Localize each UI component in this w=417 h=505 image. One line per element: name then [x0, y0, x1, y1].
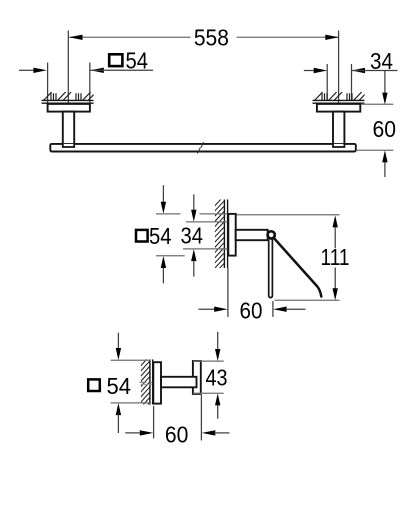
svg-text:60: 60 — [240, 298, 263, 324]
svg-text:54: 54 — [107, 373, 132, 399]
svg-text:43: 43 — [206, 364, 228, 390]
svg-text:60: 60 — [373, 116, 397, 142]
svg-text:60: 60 — [165, 422, 189, 448]
svg-text:111: 111 — [321, 244, 350, 270]
svg-text:54: 54 — [126, 48, 149, 74]
svg-text:34: 34 — [370, 48, 393, 74]
svg-text:558: 558 — [194, 25, 229, 51]
svg-text:34: 34 — [181, 222, 204, 248]
svg-text:54: 54 — [149, 223, 172, 249]
